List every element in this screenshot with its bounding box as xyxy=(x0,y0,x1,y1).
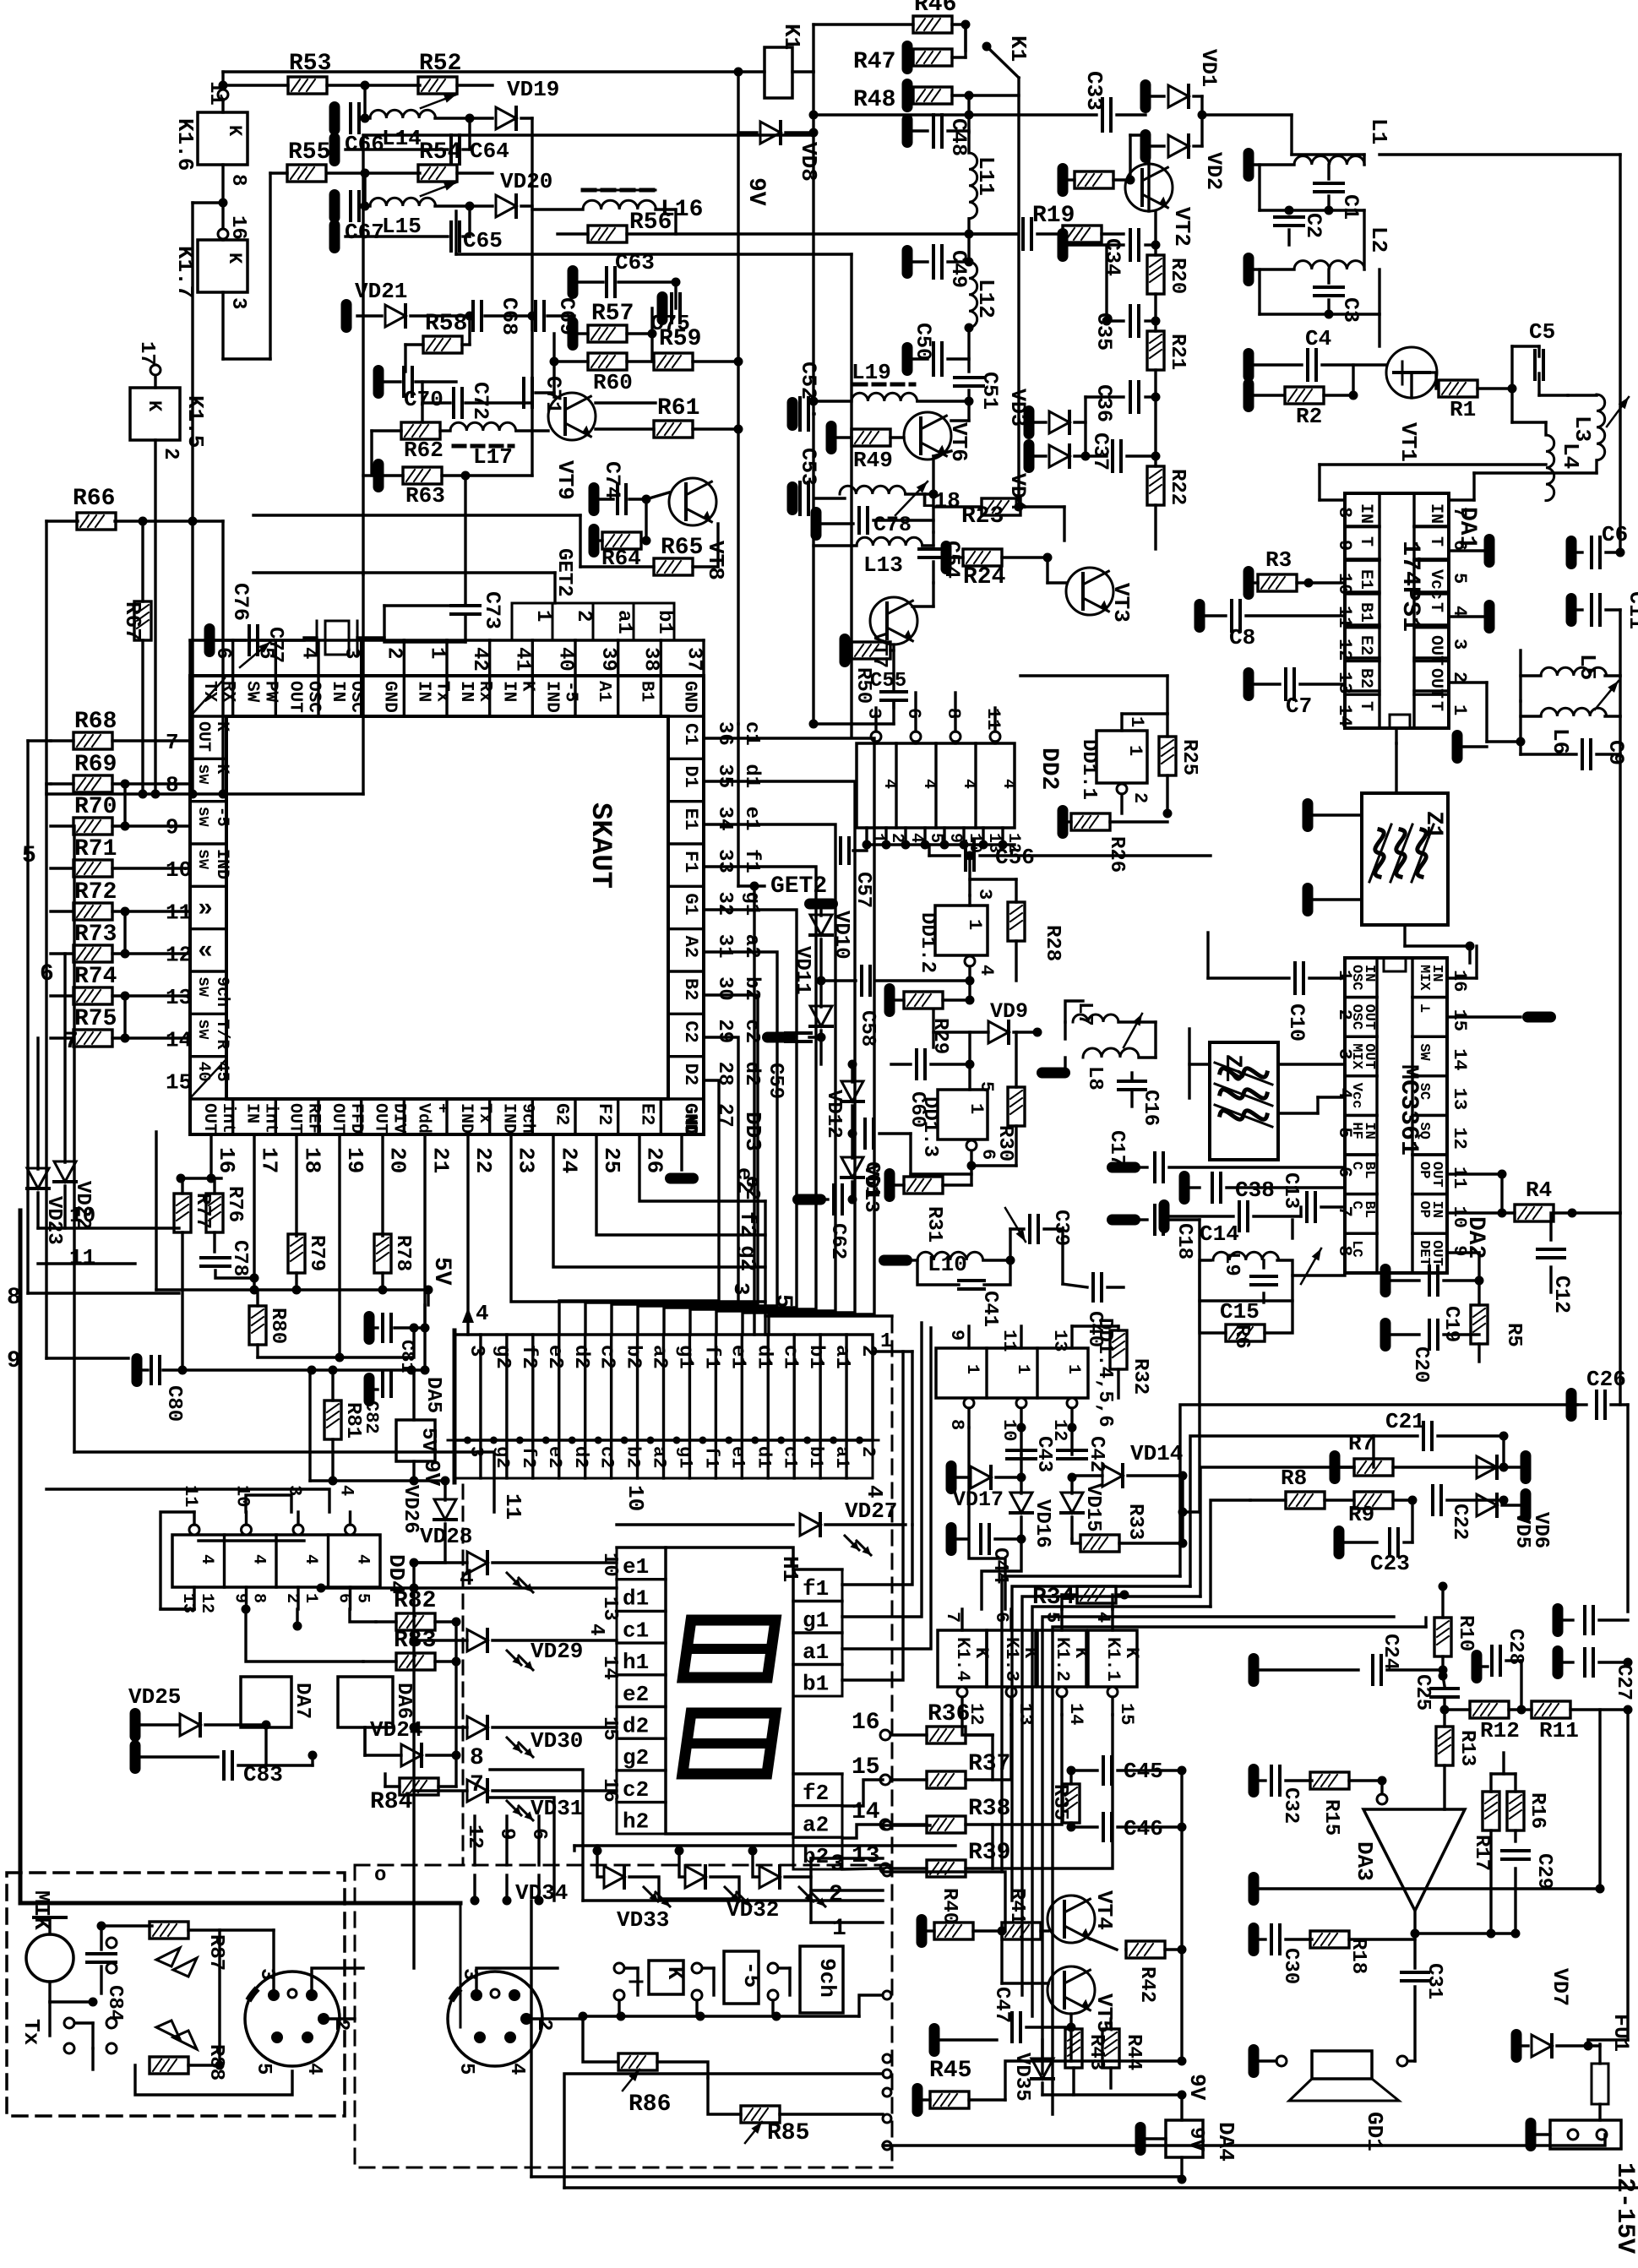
svg-text:5: 5 xyxy=(22,843,36,869)
SKAUT right pin 35 D1 xyxy=(668,758,704,760)
svg-text:4: 4 xyxy=(976,965,997,976)
diode VD9 xyxy=(988,1021,1009,1043)
svg-text:2: 2 xyxy=(1334,1009,1355,1020)
svg-text:13: 13 xyxy=(598,1596,621,1621)
filter wires xyxy=(1292,153,1364,155)
svg-text:BL: BL xyxy=(1361,1161,1377,1178)
inductor L19 with core xyxy=(852,393,917,401)
svg-text:R87: R87 xyxy=(204,1934,227,1971)
capacitor C58 xyxy=(860,966,863,995)
svg-text:5: 5 xyxy=(1334,1127,1355,1138)
svg-text:10: 10 xyxy=(598,1553,621,1577)
transistor VT1 fet xyxy=(1386,347,1437,398)
wire LED common xyxy=(412,1563,415,1791)
capacitor C74 xyxy=(589,482,600,516)
wire Z1 bottom to DA2 xyxy=(1403,925,1406,946)
svg-text:R33: R33 xyxy=(1124,1504,1146,1540)
wire jumper xyxy=(123,996,126,1038)
svg-text:MC3361: MC3361 xyxy=(1394,1064,1423,1156)
svg-text:10: 10 xyxy=(999,1419,1020,1441)
svg-text:TX: TX xyxy=(199,681,219,703)
svg-text:DD2: DD2 xyxy=(1036,748,1062,790)
wire left bus 5 xyxy=(28,739,51,742)
bus wire pin34 to display xyxy=(704,824,835,1335)
svg-text:17: 17 xyxy=(257,1147,282,1173)
svg-text:IN: IN xyxy=(1361,965,1377,982)
svg-text:IND: IND xyxy=(456,1103,476,1134)
capacitor C43 xyxy=(1007,1449,1036,1452)
resistor R64 xyxy=(589,524,600,557)
IC DA7 xyxy=(241,1677,291,1727)
svg-text:C46: C46 xyxy=(1124,1816,1163,1841)
wire jumper xyxy=(123,911,126,954)
svg-text:DA7: DA7 xyxy=(291,1683,313,1719)
wire panel bus xyxy=(583,1899,883,1901)
transistor VT7 xyxy=(870,597,917,645)
svg-text:C1: C1 xyxy=(680,723,701,745)
H1 left pin boxes xyxy=(617,1547,666,1834)
resistor R40 xyxy=(917,1914,928,1948)
svg-text:C63: C63 xyxy=(615,250,655,275)
svg-text:27: 27 xyxy=(713,1103,736,1128)
svg-text:d2: d2 xyxy=(570,1446,591,1468)
capacitor C50 xyxy=(913,357,928,360)
LED VD34 xyxy=(597,1851,601,1877)
DA2 pin16 wire xyxy=(1447,976,1477,979)
power connector 12-15V xyxy=(1550,2120,1621,2149)
bus wire pin35 to display xyxy=(704,781,855,1335)
svg-text:9V: 9V xyxy=(1184,2074,1210,2101)
resistor R67 xyxy=(134,601,151,640)
wire net5 branch right xyxy=(765,1314,892,1317)
svg-text:13: 13 xyxy=(1449,1088,1470,1110)
svg-text:T: T xyxy=(1356,701,1375,711)
LED VD28 xyxy=(467,1552,487,1574)
DA1 pin 13 B2 xyxy=(1345,689,1380,692)
svg-text:B1: B1 xyxy=(637,681,656,702)
svg-text:D2: D2 xyxy=(680,1063,701,1085)
wire R63 row to left xyxy=(370,431,373,476)
capacitor C22 xyxy=(1431,1486,1434,1515)
wire osc node xyxy=(465,474,532,476)
diode VD8 xyxy=(738,131,757,133)
feedthrough C77 gnd xyxy=(204,623,215,657)
resistor R5 xyxy=(1471,1305,1488,1344)
svg-text:C74: C74 xyxy=(600,461,624,499)
svg-text:C44: C44 xyxy=(988,1547,1011,1584)
capacitor C30 xyxy=(1249,1923,1260,1956)
svg-text:L3: L3 xyxy=(1570,416,1595,442)
svg-text:SW: SW xyxy=(242,681,262,703)
DD1.4,5,6 bottom pins xyxy=(964,1398,974,1408)
wire C56 to DD2 xyxy=(928,845,930,856)
svg-text:DD3: DD3 xyxy=(740,1112,765,1151)
svg-text:sw: sw xyxy=(193,976,213,997)
svg-text:R59: R59 xyxy=(659,326,701,352)
capacitor C15 xyxy=(1251,1275,1276,1278)
svg-text:R78: R78 xyxy=(391,1235,414,1271)
wire right rail xyxy=(1619,155,1621,552)
svg-text:DA3: DA3 xyxy=(1352,1841,1377,1881)
svg-text:e1: e1 xyxy=(740,807,763,831)
svg-text:17: 17 xyxy=(135,341,158,366)
svg-text:4: 4 xyxy=(197,1554,216,1564)
svg-text:2: 2 xyxy=(532,2019,555,2031)
wire x55 drop xyxy=(45,521,47,794)
net 5 trunk xyxy=(753,886,755,1335)
connector pin junction xyxy=(830,1437,837,1444)
svg-text:A1: A1 xyxy=(594,681,613,702)
svg-text:C59: C59 xyxy=(764,1063,786,1099)
SKAUT top pin 41 IN/K xyxy=(488,676,491,716)
resistor R77 xyxy=(174,1194,191,1232)
svg-text:R36: R36 xyxy=(928,1701,970,1727)
capacitor C47 xyxy=(929,2023,940,2057)
node box b1 above SKAUT xyxy=(634,603,674,640)
svg-text:C55: C55 xyxy=(870,670,906,693)
DA2 pin 12 xyxy=(1412,1114,1447,1117)
fuse FU1 xyxy=(1592,2064,1608,2104)
svg-text:5: 5 xyxy=(454,2063,477,2075)
connector pin junction xyxy=(803,1437,811,1444)
connector pin junction xyxy=(516,1437,524,1444)
resistor R22 xyxy=(1147,466,1164,505)
svg-text:L11: L11 xyxy=(973,156,999,196)
svg-text:a1: a1 xyxy=(831,1446,852,1468)
capacitor C61 xyxy=(863,1119,867,1148)
bus wire front panel xyxy=(1012,1586,1190,1901)
capacitor C29 xyxy=(1502,1849,1529,1852)
svg-text:9V: 9V xyxy=(419,1460,444,1487)
svg-text:7: 7 xyxy=(942,1612,963,1623)
svg-text:FFD: FFD xyxy=(346,1103,366,1134)
svg-text:K: K xyxy=(662,1966,688,1980)
svg-text:F2: F2 xyxy=(594,1103,615,1125)
capacitor C54 xyxy=(919,547,948,551)
svg-text:R40: R40 xyxy=(938,1888,960,1924)
digit 2 seven-segment 8 xyxy=(683,1713,775,1774)
svg-text:R85: R85 xyxy=(767,2120,809,2146)
resistor R82 xyxy=(396,1613,435,1630)
capacitor C26 xyxy=(1566,1388,1577,1422)
wire pin16 down xyxy=(210,1134,212,1178)
svg-text:4: 4 xyxy=(476,1301,489,1326)
svg-text:VD15: VD15 xyxy=(1081,1483,1104,1532)
transistor VT4 xyxy=(1048,1895,1095,1943)
capacitor C40 xyxy=(1091,1274,1095,1301)
svg-text:R16: R16 xyxy=(1526,1792,1548,1829)
button -5 xyxy=(724,1951,759,2004)
svg-text:8: 8 xyxy=(1334,1245,1355,1256)
board border xyxy=(20,1210,460,1903)
svg-text:DD1.4,5,6: DD1.4,5,6 xyxy=(1093,1318,1116,1428)
resistor R87 xyxy=(150,1922,188,1939)
svg-text:R54: R54 xyxy=(419,139,461,166)
resistor R36 xyxy=(927,1727,966,1743)
wire display top right xyxy=(842,1525,912,1585)
capacitor C57 xyxy=(839,838,842,863)
connector pin junction xyxy=(464,1437,471,1444)
resistor R88 xyxy=(150,2057,188,2074)
svg-text:8: 8 xyxy=(470,1745,484,1771)
resistor R9 xyxy=(1354,1492,1393,1509)
capacitor C48 xyxy=(913,129,928,132)
SKAUT left pin 11 » xyxy=(190,885,226,888)
DD2 bottom pins xyxy=(865,828,868,845)
connector pin junction xyxy=(856,1437,863,1444)
svg-text:19: 19 xyxy=(342,1147,367,1173)
connector left edge thick xyxy=(453,1330,457,1482)
svg-text:R9: R9 xyxy=(1348,1502,1374,1527)
svg-text:2: 2 xyxy=(857,1446,879,1457)
svg-text:R65: R65 xyxy=(661,535,703,561)
relay contact K1.2 xyxy=(1037,1630,1086,1687)
svg-text:L19: L19 xyxy=(852,360,891,385)
diode VD10 gnd xyxy=(804,899,838,910)
svg-text:D1: D1 xyxy=(680,765,701,787)
svg-text:K1: K1 xyxy=(1005,35,1031,62)
svg-text:5V: 5V xyxy=(428,1257,454,1286)
svg-text:VD1: VD1 xyxy=(1196,49,1221,87)
wire 8/7 to panel xyxy=(490,1770,583,1901)
svg-text:C38: C38 xyxy=(1235,1178,1275,1203)
svg-text:OUT: OUT xyxy=(371,1103,390,1134)
SKAUT right pin 32 G1 xyxy=(668,885,704,888)
wire VD19/VD20 node xyxy=(531,118,533,329)
svg-text:4: 4 xyxy=(959,779,978,789)
svg-text:R41: R41 xyxy=(1005,1888,1028,1924)
wire left bus 7 xyxy=(73,826,75,1452)
svg-text:VD13: VD13 xyxy=(859,1164,882,1213)
feedthrough C67 xyxy=(329,189,340,223)
IC DD1.1 xyxy=(1097,731,1147,783)
svg-text:T: T xyxy=(1426,602,1445,612)
svg-text:4: 4 xyxy=(336,1485,357,1496)
svg-text:h2: h2 xyxy=(623,1809,649,1835)
svg-text:a2: a2 xyxy=(740,934,763,959)
capacitor C68 xyxy=(471,302,475,330)
svg-text:e1: e1 xyxy=(623,1554,649,1580)
svg-text:a1: a1 xyxy=(830,1345,853,1369)
svg-text:2: 2 xyxy=(329,2019,352,2031)
svg-text:6: 6 xyxy=(335,1593,354,1603)
svg-text:GND: GND xyxy=(679,1103,700,1137)
svg-text:C72: C72 xyxy=(468,382,492,420)
svg-text:C13: C13 xyxy=(1279,1172,1302,1209)
resistor R74 xyxy=(73,987,112,1004)
svg-text:L1: L1 xyxy=(1366,118,1391,144)
display H1 frame xyxy=(666,1547,793,1834)
capacitor C44 xyxy=(946,1522,957,1556)
svg-text:14: 14 xyxy=(166,1027,192,1052)
capacitor C21 xyxy=(1422,1422,1425,1449)
svg-text:C36: C36 xyxy=(1091,384,1116,422)
capacitor C12 xyxy=(1537,1248,1565,1251)
svg-text:A2: A2 xyxy=(680,936,701,958)
svg-text:45: 45 xyxy=(212,1062,231,1082)
capacitor C25 xyxy=(1431,1687,1458,1690)
svg-text:OSC: OSC xyxy=(303,681,323,713)
SKAUT right pin 33 F1 xyxy=(668,842,704,845)
svg-text:IN: IN xyxy=(1428,965,1445,982)
svg-text:R39: R39 xyxy=(968,1840,1010,1866)
resistor R19 xyxy=(1063,226,1102,242)
svg-text:5: 5 xyxy=(353,1593,373,1603)
resistor R1 xyxy=(1439,380,1477,397)
diode VD5 xyxy=(1477,1456,1497,1478)
svg-text:R28: R28 xyxy=(1041,925,1064,961)
svg-text:1: 1 xyxy=(1013,1364,1032,1374)
LED VD33 xyxy=(679,1851,683,1877)
resistor R8 xyxy=(1286,1492,1325,1509)
svg-text:5: 5 xyxy=(252,2063,275,2075)
svg-text:4: 4 xyxy=(999,779,1018,789)
svg-text:K1.5: K1.5 xyxy=(182,395,208,448)
svg-text:12: 12 xyxy=(463,1825,486,1849)
svg-text:2: 2 xyxy=(383,647,405,659)
svg-text:4: 4 xyxy=(585,1623,607,1635)
svg-text:K: K xyxy=(1121,1647,1142,1659)
svg-text:3: 3 xyxy=(465,1345,487,1357)
svg-text:C26: C26 xyxy=(1586,1367,1626,1392)
bus wire pin28 to display xyxy=(559,1080,719,1335)
wire K1.7 to R55 xyxy=(223,357,270,360)
wire H1 bottom rail xyxy=(574,1844,955,1846)
svg-text:c2: c2 xyxy=(596,1345,618,1369)
svg-text:C24: C24 xyxy=(1379,1634,1401,1670)
diode VD24 xyxy=(401,1744,422,1766)
IC DD1.3 xyxy=(938,1090,988,1139)
capacitor C32 xyxy=(1249,1764,1260,1798)
DA2 notch xyxy=(1384,958,1406,971)
svg-text:L6: L6 xyxy=(1548,728,1573,754)
regulator DA4 xyxy=(1166,2120,1203,2157)
wire pin22 down net 4 xyxy=(466,1134,469,1335)
svg-text:c2: c2 xyxy=(623,1777,649,1803)
wire DA1 pin8 to L4 xyxy=(1320,498,1345,501)
capacitor C71 xyxy=(522,378,525,407)
resistor R61 xyxy=(654,421,693,438)
SKAUT bottom pin 23 IND/9ch xyxy=(488,1099,491,1134)
wire pin17 down xyxy=(253,1134,255,1278)
resistor R21 xyxy=(1147,331,1164,370)
capacitor C18 xyxy=(1107,1215,1140,1226)
svg-text:C11: C11 xyxy=(1624,591,1638,629)
svg-text:OUT: OUT xyxy=(285,681,304,713)
wire DA2 pin11 xyxy=(1447,1172,1502,1175)
transistor VT9 xyxy=(548,393,596,440)
SKAUT right pin 30 B2 xyxy=(668,970,704,972)
feedthrough C52 xyxy=(787,397,798,431)
svg-text:L9: L9 xyxy=(1220,1252,1243,1276)
transistor VT6 xyxy=(904,412,951,460)
bus wire pin32 to display xyxy=(664,910,797,1335)
inductor L16 with core xyxy=(583,189,656,192)
svg-text:7: 7 xyxy=(166,730,179,755)
resistor R59 xyxy=(654,353,693,370)
resistor R60 xyxy=(588,353,627,370)
svg-text:OUT: OUT xyxy=(285,1103,304,1134)
svg-text:C25: C25 xyxy=(1411,1674,1434,1711)
svg-text:PW: PW xyxy=(261,681,280,703)
svg-text:E1: E1 xyxy=(1356,569,1375,590)
SKAUT bottom pin 17 IN/int xyxy=(231,1099,234,1134)
resistor R81 xyxy=(324,1401,341,1439)
LED VD31 xyxy=(467,1780,487,1802)
svg-text:6: 6 xyxy=(1449,540,1470,551)
wire panel to right 1 xyxy=(883,1824,930,1826)
svg-text:d2: d2 xyxy=(740,1062,763,1086)
svg-text:26: 26 xyxy=(642,1147,667,1173)
DD2 top pins xyxy=(871,732,881,742)
relay contact K1.5 xyxy=(130,388,180,440)
wire left bus 6 xyxy=(46,782,51,785)
svg-text:4: 4 xyxy=(249,1554,269,1564)
diode VD4 xyxy=(1024,439,1035,473)
SKAUT bottom pin 24 G2 xyxy=(531,1099,534,1134)
svg-text:a1: a1 xyxy=(612,610,635,634)
svg-text:DD1.2: DD1.2 xyxy=(916,912,939,973)
capacitor C5 xyxy=(1533,351,1537,379)
svg-text:C14: C14 xyxy=(1200,1221,1239,1247)
resistor R72 xyxy=(73,903,112,920)
wire lower bus lines xyxy=(531,2175,1182,2178)
capacitor C33 xyxy=(969,113,1097,116)
svg-text:15: 15 xyxy=(1116,1703,1137,1725)
wire VT2 collector xyxy=(1147,135,1150,211)
resistor R43 xyxy=(1065,2029,1082,2068)
svg-text:IN: IN xyxy=(1356,503,1375,524)
svg-text:9: 9 xyxy=(946,1330,967,1341)
svg-text:34: 34 xyxy=(713,807,736,831)
wire DD1.4 to K1.4 xyxy=(982,1539,1021,1609)
inductor L6 xyxy=(1541,708,1607,716)
svg-text:1: 1 xyxy=(880,1330,892,1353)
inductor L11 xyxy=(969,153,977,219)
resistor R76 xyxy=(206,1194,223,1232)
svg-text:35: 35 xyxy=(713,764,736,788)
svg-text:K1.4: K1.4 xyxy=(952,1637,973,1682)
svg-text:R57: R57 xyxy=(591,301,634,327)
wire VD14 node xyxy=(1181,1476,1184,1543)
svg-text:C62: C62 xyxy=(826,1223,849,1259)
svg-text:VD11: VD11 xyxy=(791,946,814,995)
Z1 left pills xyxy=(1303,798,1314,832)
svg-text:DA5: DA5 xyxy=(422,1377,444,1413)
svg-text:R47: R47 xyxy=(853,49,895,75)
SKAUT left pin 10 sw/IND xyxy=(190,842,226,845)
wire K1.7 feed xyxy=(193,201,223,204)
svg-text:GET2: GET2 xyxy=(552,548,575,597)
svg-text:R55: R55 xyxy=(288,139,330,166)
feedthrough C48 xyxy=(902,114,913,148)
wire C80/C82 row xyxy=(181,1368,427,1371)
svg-text:16: 16 xyxy=(1449,970,1470,992)
wire bottom left jog xyxy=(460,1903,462,2027)
svg-text:7: 7 xyxy=(1449,507,1470,518)
svg-text:IN: IN xyxy=(1426,503,1445,524)
svg-text:13: 13 xyxy=(1049,1330,1070,1352)
svg-text:1: 1 xyxy=(531,610,554,622)
speaker GD1 xyxy=(1312,2051,1372,2079)
svg-text:K: K xyxy=(224,125,245,137)
svg-text:OUT: OUT xyxy=(328,1103,347,1134)
wire pin27 gnd xyxy=(680,1134,683,1170)
svg-text:IN: IN xyxy=(328,681,347,702)
svg-text:R86: R86 xyxy=(629,2091,671,2118)
svg-text:SKAUT: SKAUT xyxy=(584,802,616,889)
svg-text:R83: R83 xyxy=(394,1628,436,1654)
